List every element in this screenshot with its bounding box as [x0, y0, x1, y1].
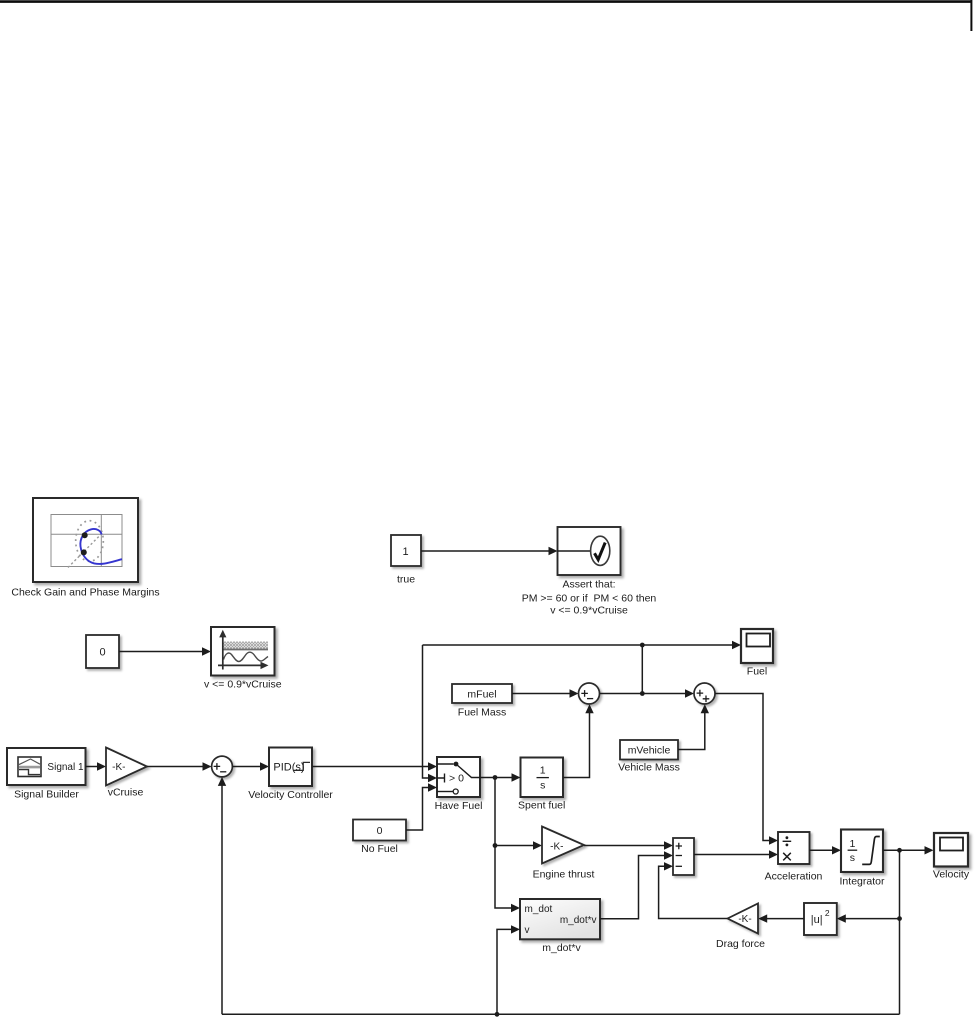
wire: force sum -> Acceleration product	[694, 850, 778, 858]
svg-text:vCruise: vCruise	[108, 787, 144, 799]
label: vCruise	[108, 787, 144, 799]
wire: PID -> Have Fuel switch input 1	[312, 762, 437, 770]
junction: top wire tap node	[640, 643, 645, 648]
wire: bottom bus up to velocity error sum (left feedback)	[218, 777, 226, 1014]
junction: velocity feedback node	[897, 848, 902, 853]
svg-text:> 0: > 0	[449, 772, 464, 784]
wire: Integrator -> Velocity scope	[883, 846, 934, 854]
scope block: Fuel	[741, 629, 773, 663]
svg-text:v: v	[525, 925, 530, 936]
svg-text:Integrator: Integrator	[840, 875, 885, 887]
svg-text:Spent fuel: Spent fuel	[518, 800, 565, 812]
wire: Drag force -> force sum input 3	[659, 862, 728, 918]
wire: 0 -> bound scope	[119, 647, 211, 655]
product block: Acceleration (divide / multiply)	[778, 832, 810, 864]
svg-text:Have Fuel: Have Fuel	[435, 800, 483, 812]
integrator block: Spent fuel (1/s)	[521, 758, 564, 798]
check block: blue Nyquist curve	[80, 529, 122, 564]
svg-text:Check Gain and Phase Margins: Check Gain and Phase Margins	[11, 587, 159, 599]
constant block "0" (left)	[86, 635, 119, 668]
svg-text:v <= 0.9*vCruise: v <= 0.9*vCruise	[204, 678, 282, 690]
scope block: Velocity	[934, 833, 968, 867]
label: Assert that: PM >= 60 or if PM < 60 then v <= 0.9*vCruise	[522, 579, 657, 617]
wire: fuel-flow feedback down to switch input 2	[423, 645, 438, 782]
junction: switch output node	[493, 775, 498, 780]
constant block: mVehicle	[620, 740, 678, 760]
svg-text:mFuel: mFuel	[467, 688, 496, 700]
svg-text:0: 0	[99, 647, 105, 659]
check block: gain margin dot	[82, 532, 88, 538]
svg-text:Vehicle Mass: Vehicle Mass	[618, 762, 680, 774]
gain block: Engine thrust (-K-)	[542, 827, 584, 864]
svg-text:-K-: -K-	[738, 914, 751, 925]
label: Have Fuel	[435, 800, 483, 812]
controller block: PID(s)	[269, 748, 312, 787]
assertion block U_assert	[558, 527, 621, 575]
svg-text:true: true	[397, 574, 415, 586]
svg-text:-K-: -K-	[550, 841, 563, 852]
label: Integrator	[840, 875, 885, 887]
svg-text:Fuel: Fuel	[747, 665, 767, 677]
label: Vehicle Mass	[618, 762, 680, 774]
wire: No Fuel -> switch input 3	[406, 783, 437, 830]
block: Check Gain and Phase Margins (model verification block)	[33, 498, 138, 582]
wire: branch node -> Engine thrust	[495, 841, 542, 849]
wire: fuel sum -> mass sum	[600, 689, 695, 697]
svg-text:-K-: -K-	[112, 762, 125, 773]
check block: dashed diagonal margin line	[68, 533, 103, 568]
sum block: velocity error (+ -)	[212, 756, 233, 777]
label: No Fuel	[361, 843, 398, 855]
svg-text:s: s	[850, 852, 855, 864]
label: Spent fuel	[518, 800, 565, 812]
wire: mVehicle -> mass sum (up)	[678, 704, 709, 749]
constant block: mFuel	[452, 684, 512, 703]
label: m_dot*v	[542, 942, 581, 954]
svg-text:Fuel Mass: Fuel Mass	[458, 706, 506, 718]
svg-text:Engine thrust: Engine thrust	[533, 869, 595, 881]
svg-text:No Fuel: No Fuel	[361, 843, 398, 855]
gain block: Drag force (-K- pointing left)	[728, 904, 759, 934]
label: Check Gain and Phase Margins	[11, 587, 159, 599]
svg-text:1: 1	[849, 838, 855, 850]
svg-text:PID(s): PID(s)	[273, 762, 304, 774]
source block: Signal Builder	[7, 748, 86, 785]
subsystem block: m_dot*v	[520, 899, 600, 939]
svg-text:0: 0	[377, 825, 383, 837]
svg-text:Signal Builder: Signal Builder	[14, 789, 79, 801]
wire: Engine thrust -> force sum input 1	[584, 841, 673, 849]
wire: true -> Assert	[421, 547, 558, 555]
svg-text:Acceleration: Acceleration	[765, 871, 823, 883]
svg-text:Velocity Controller: Velocity Controller	[248, 789, 333, 801]
label: Velocity Controller	[248, 789, 333, 801]
wire: vCruise -> sum junction	[147, 762, 212, 770]
svg-text:1: 1	[540, 765, 546, 777]
wire: velocity feedback down the right side	[899, 850, 901, 1014]
svg-text:m_dot: m_dot	[525, 904, 553, 915]
label: Drag force	[716, 938, 765, 950]
svg-text:mVehicle: mVehicle	[628, 745, 671, 757]
page top border line	[0, 0, 972, 3]
check block: phase margin dot	[81, 549, 87, 555]
svg-text:s: s	[540, 779, 545, 791]
svg-text:1: 1	[402, 546, 408, 558]
label: Velocity	[933, 869, 970, 881]
label: Acceleration	[765, 871, 823, 883]
svg-text:PM >= 60 or if PM < 60 then: PM >= 60 or if PM < 60 then	[522, 593, 657, 605]
svg-text:|u|: |u|	[811, 914, 823, 926]
check block: dashed unit circle (dotted ellipse)	[76, 521, 104, 562]
label: Fuel	[747, 665, 767, 677]
wire: m_dot*v output -> force sum input 2	[600, 851, 673, 919]
wire: Acceleration -> Integrator	[810, 846, 842, 854]
constant block "0" (No Fuel)	[353, 820, 406, 841]
wire: Spent fuel -> fuel sum (up)	[563, 704, 594, 777]
wire: tap node down to fuel sum output line	[641, 645, 643, 694]
integrator block: Integrator (1/s with saturation)	[841, 830, 883, 873]
svg-text:v <= 0.9*vCruise: v <= 0.9*vCruise	[550, 605, 628, 617]
label: Fuel Mass	[458, 706, 506, 718]
junction: engine-thrust branch node	[493, 843, 498, 848]
svg-text:2: 2	[825, 908, 830, 918]
wire: |u|^2 -> Drag force (leftward)	[758, 914, 804, 922]
svg-text:m_dot*v: m_dot*v	[542, 942, 581, 954]
label: v <= 0.9*vCruise	[204, 678, 282, 690]
junction: v-input tap node on bottom bus	[495, 1012, 500, 1017]
junction: fuel line node on sum wire	[640, 691, 645, 696]
scope block: v <= 0.9*vCruise (bounds check plot)	[211, 627, 275, 676]
svg-text:Signal 1: Signal 1	[47, 762, 84, 773]
label: Signal Builder	[14, 789, 79, 801]
svg-text:m_dot*v: m_dot*v	[560, 915, 597, 926]
svg-text:Drag force: Drag force	[716, 938, 765, 950]
label: Engine thrust	[533, 869, 595, 881]
sum block: remaining fuel (+ -)	[579, 683, 600, 704]
sum block: net force (+ - -)	[673, 838, 694, 875]
svg-text:Velocity: Velocity	[933, 869, 970, 881]
gain block: vCruise (-K-)	[106, 748, 147, 786]
junction: |u|^2 tap node	[897, 916, 902, 921]
wire: bottom bus up to m_dot*v v-input	[497, 925, 520, 1014]
constant block "1" (true)	[391, 535, 421, 566]
wire: bottom velocity feedback bus	[222, 1013, 900, 1015]
wire: switch output node down to m_dot input	[495, 778, 520, 913]
wire: fuel level line (top horizontal) -> Fuel scope	[423, 641, 742, 649]
wire: Signal Builder -> vCruise	[86, 762, 107, 770]
switch block: Have Fuel (> 0)	[437, 757, 480, 797]
wire: tap node -> |u|^2 (leftward)	[837, 914, 900, 922]
sum block: total mass (+ +)	[694, 683, 715, 704]
label: true	[397, 574, 415, 586]
math block: |u|^2	[804, 903, 837, 935]
wire: switch output -> Spent fuel	[480, 773, 521, 781]
wire: sum -> PID	[232, 762, 269, 770]
check block: inner plot axes box	[51, 515, 122, 567]
wire: mass sum -> Acceleration divide input	[715, 694, 778, 845]
page right border line	[970, 0, 972, 31]
svg-text:Assert that:: Assert that:	[562, 579, 615, 591]
wire: mFuel -> fuel sum	[512, 689, 579, 697]
